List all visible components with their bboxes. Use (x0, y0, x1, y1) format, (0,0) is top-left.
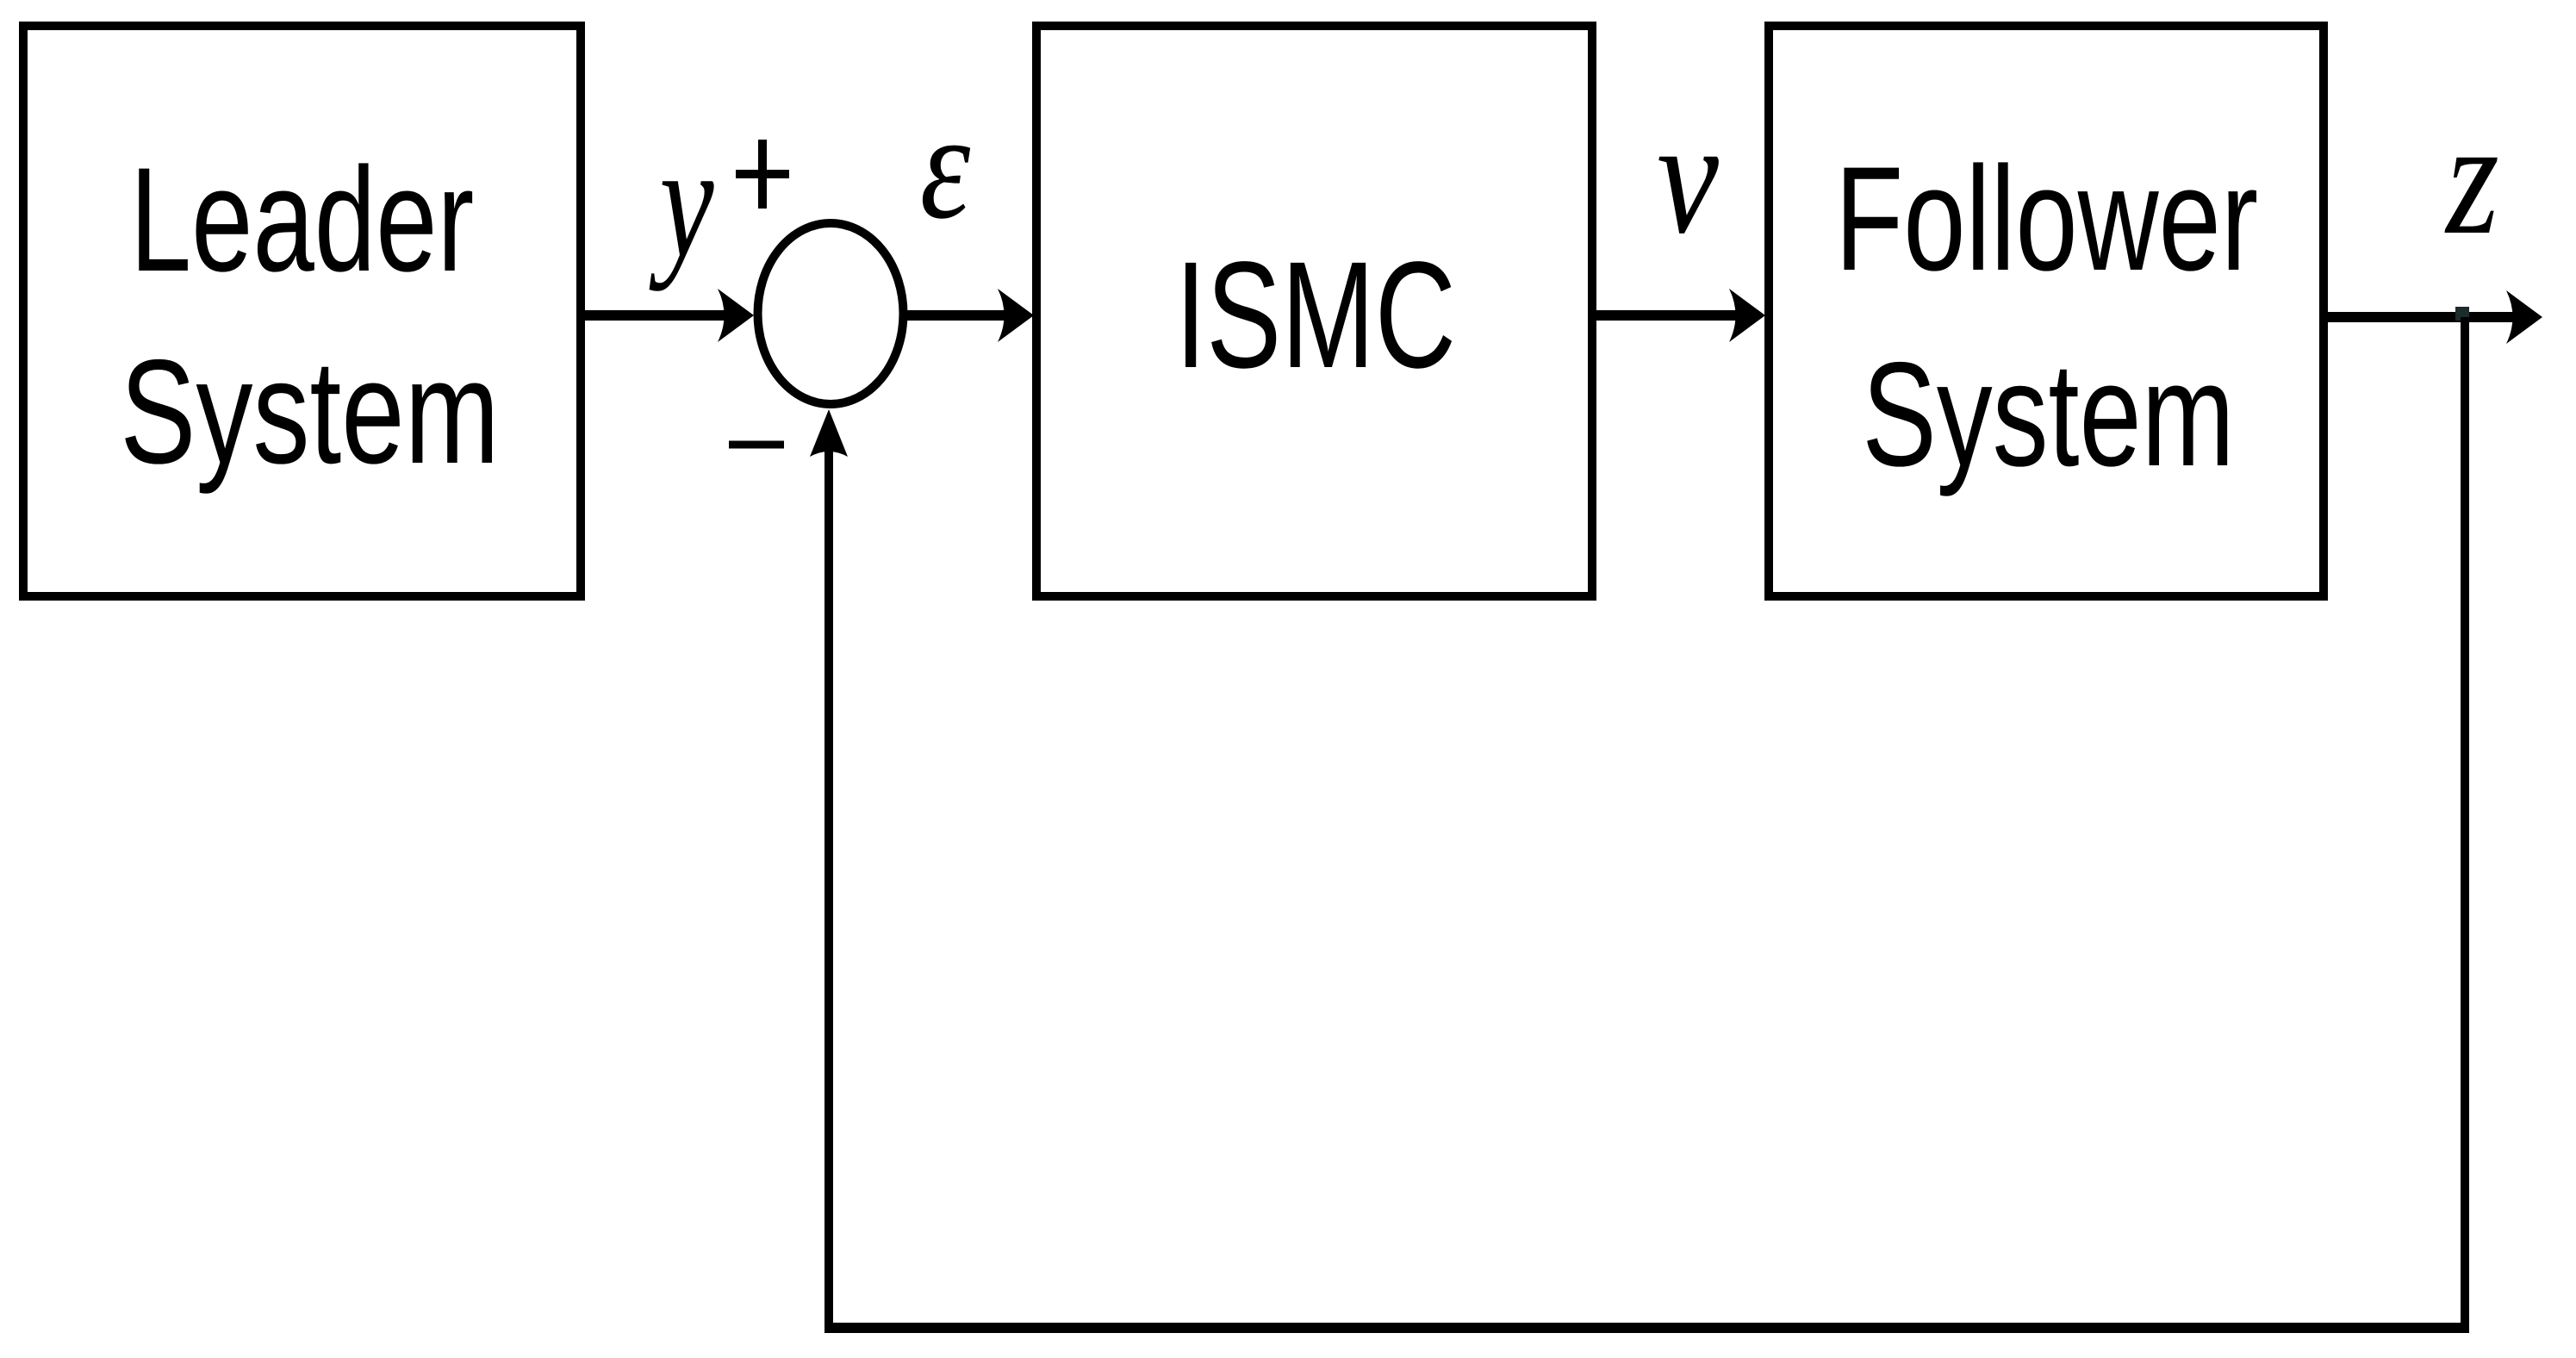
plus sign (736, 170, 789, 178)
wire v: ISMC to Follower (1592, 310, 1739, 321)
block ISMC (1036, 26, 1592, 596)
wire y: Leader to summing junction (581, 310, 728, 321)
svg-text:System: System (120, 329, 499, 495)
wire feedback bottom segment (824, 1323, 2469, 1333)
summing junction (758, 223, 904, 404)
svg-text:Leader: Leader (130, 138, 474, 303)
svg-text:ISMC: ISMC (1175, 230, 1456, 400)
svg-text:z: z (2444, 86, 2498, 268)
minus sign (729, 441, 784, 449)
block Leader System (23, 26, 581, 596)
svg-text:Follower: Follower (1835, 136, 2258, 302)
block Follower System (1769, 26, 2324, 596)
wire feedback up segment (824, 448, 833, 1332)
svg-text:v: v (1657, 87, 1719, 268)
wire z: Follower output (2324, 312, 2517, 322)
wire epsilon: summing junction to ISMC (903, 310, 1008, 321)
svg-text:System: System (1862, 332, 2234, 497)
wire feedback down segment (2461, 317, 2469, 1328)
svg-text:ε: ε (920, 82, 971, 251)
svg-text:y: y (650, 112, 715, 292)
node feedback junction (2455, 307, 2469, 321)
